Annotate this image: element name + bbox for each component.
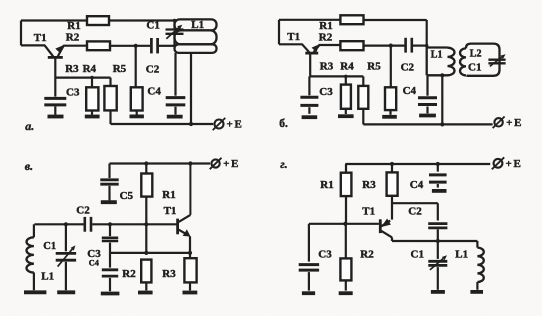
svg-text:C3: C3 <box>319 86 333 98</box>
svg-text:E: E <box>231 158 238 170</box>
svg-text:T1: T1 <box>362 206 375 218</box>
svg-text:E: E <box>514 158 521 170</box>
svg-text:T1: T1 <box>164 205 177 217</box>
svg-text:+: + <box>506 158 512 170</box>
svg-text:R4: R4 <box>340 60 354 72</box>
svg-text:C1: C1 <box>468 62 481 74</box>
svg-text:C5: C5 <box>120 190 134 202</box>
svg-text:в.: в. <box>25 159 33 173</box>
svg-text:T1: T1 <box>287 31 300 43</box>
svg-text:C2: C2 <box>401 62 415 74</box>
svg-text:R1: R1 <box>320 179 333 191</box>
svg-text:R2: R2 <box>122 268 136 280</box>
svg-text:C2: C2 <box>146 63 160 75</box>
svg-text:R3: R3 <box>65 63 79 75</box>
svg-text:C4: C4 <box>89 259 99 268</box>
svg-text:L1: L1 <box>191 19 204 31</box>
svg-text:R5: R5 <box>113 63 127 75</box>
svg-text:+: + <box>506 117 512 129</box>
svg-text:L1: L1 <box>41 271 54 283</box>
svg-text:C2: C2 <box>408 205 422 217</box>
svg-text:+: + <box>223 158 229 170</box>
svg-text:L1: L1 <box>431 49 443 60</box>
svg-text:C4: C4 <box>147 85 161 97</box>
svg-text:R3: R3 <box>162 268 176 280</box>
svg-text:C3: C3 <box>318 249 332 261</box>
svg-text:C3: C3 <box>66 86 80 98</box>
svg-text:а.: а. <box>25 119 34 133</box>
svg-text:L1: L1 <box>455 249 468 261</box>
svg-text:T1: T1 <box>34 32 47 44</box>
svg-text:R3: R3 <box>320 60 334 72</box>
svg-text:R5: R5 <box>367 60 381 72</box>
svg-text:R1: R1 <box>162 189 175 201</box>
svg-text:б.: б. <box>279 118 288 130</box>
svg-text:г.: г. <box>280 157 287 171</box>
svg-text:+: + <box>227 119 233 131</box>
svg-text:C1: C1 <box>43 241 56 252</box>
svg-text:E: E <box>235 119 242 131</box>
svg-text:L2: L2 <box>470 49 482 60</box>
svg-text:R1: R1 <box>319 20 332 32</box>
svg-text:R4: R4 <box>83 63 97 75</box>
svg-text:R1: R1 <box>67 20 80 32</box>
svg-text:C4: C4 <box>410 179 424 191</box>
svg-text:C1: C1 <box>411 249 424 261</box>
svg-text:R2: R2 <box>66 31 80 43</box>
svg-text:C4: C4 <box>403 85 417 97</box>
svg-text:R2: R2 <box>319 31 333 43</box>
svg-text:E: E <box>514 117 521 129</box>
svg-text:C1: C1 <box>146 20 159 32</box>
svg-text:R2: R2 <box>360 249 374 261</box>
svg-text:C2: C2 <box>76 205 90 217</box>
svg-text:R3: R3 <box>362 179 376 191</box>
